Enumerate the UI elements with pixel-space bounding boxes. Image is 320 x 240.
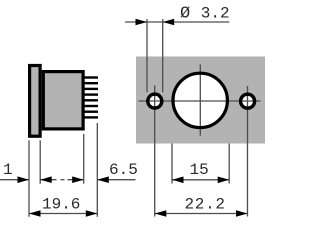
wire: vertical centerline right hole / extension to 22.2 (247, 86, 249, 217)
wire: horizontal centerline through holes (138, 100, 260, 102)
wire: extension line flange right (39, 140, 41, 183)
dimension 6.5 (61, 179, 65, 181)
connector body (side view) (43, 72, 83, 129)
connector flange (30, 66, 40, 137)
wire: extension line big hole right (15) (228, 144, 230, 184)
svg-text:22.2: 22.2 (185, 196, 226, 214)
right small hole fill (241, 94, 255, 108)
wire: vertical centerline left hole / extension to 22.2 (154, 85, 156, 216)
wire: dia 3.2 extension lines (146, 19, 148, 92)
svg-text:Ø: Ø (180, 5, 190, 24)
big hole fill (173, 73, 227, 127)
svg-text:6.5: 6.5 (109, 161, 138, 179)
dimension 1 (0, 179, 29, 181)
panel (front view mounting plate) (136, 57, 265, 144)
svg-text:15: 15 (190, 161, 209, 179)
pins (8 terminals) (84, 76, 98, 78)
dimension 19.6 (29, 213, 97, 215)
dimension 15 (172, 179, 229, 181)
big hole ring (173, 73, 227, 127)
wire: extension line body right (83, 134, 85, 184)
wire: extension line pin tips (96, 123, 98, 217)
left small hole fill (148, 94, 162, 108)
wire: dia 3.2 dimension line (125, 21, 229, 23)
svg-text:1: 1 (3, 161, 13, 179)
wire: vertical centerline big hole (199, 64, 201, 136)
dimension 22.2 (155, 213, 248, 215)
svg-text:19.6: 19.6 (42, 196, 80, 214)
wire: extension line big hole left (15) (171, 144, 173, 184)
wire: extension line flange left (28, 140, 30, 217)
left small hole ring (3.2 dia) (148, 94, 162, 108)
right small hole ring (241, 94, 255, 108)
svg-text:3.2: 3.2 (201, 5, 230, 23)
